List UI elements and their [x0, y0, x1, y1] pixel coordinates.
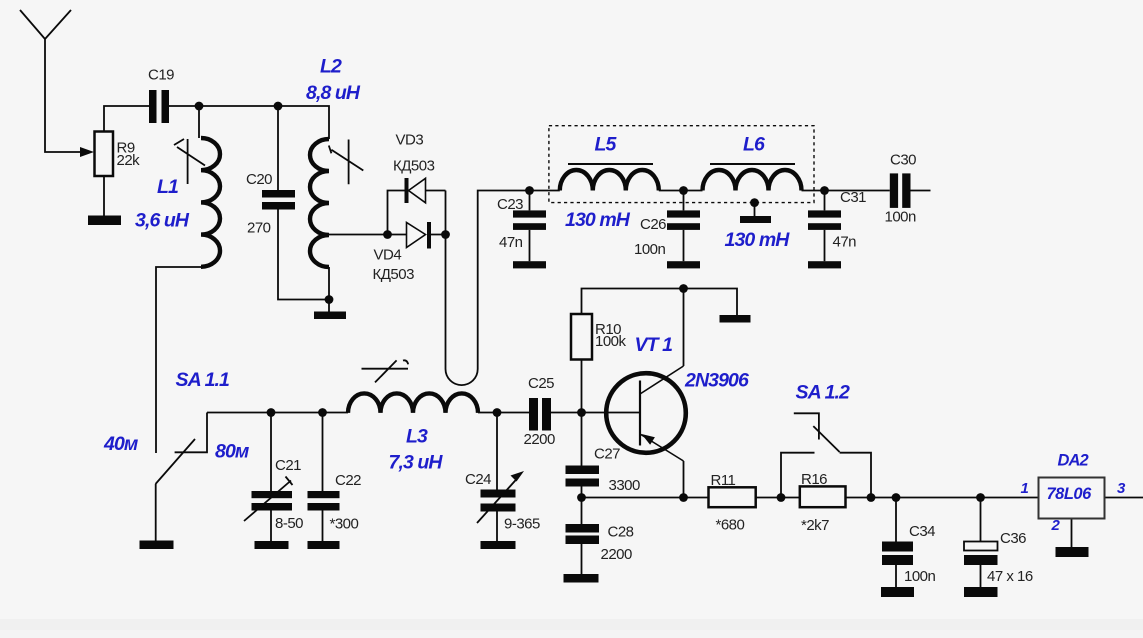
svg-text:47n: 47n [833, 234, 857, 251]
svg-text:C19: C19 [148, 67, 174, 84]
svg-text:C30: C30 [890, 152, 916, 169]
svg-text:9-365: 9-365 [504, 516, 540, 533]
svg-text:270: 270 [247, 220, 271, 237]
svg-text:2200: 2200 [524, 431, 556, 448]
svg-text:80м: 80м [215, 441, 250, 463]
svg-text:3,6 uH: 3,6 uH [135, 210, 190, 232]
svg-text:C27: C27 [594, 446, 620, 463]
svg-text:VT 1: VT 1 [635, 334, 673, 356]
svg-text:VD3: VD3 [396, 132, 424, 149]
svg-text:C23: C23 [497, 196, 523, 213]
svg-text:C31: C31 [840, 189, 866, 206]
svg-text:2N3906: 2N3906 [684, 370, 749, 392]
svg-text:3300: 3300 [609, 477, 641, 494]
svg-text:C21: C21 [275, 457, 301, 474]
svg-text:КД503: КД503 [373, 266, 415, 283]
svg-text:C34: C34 [909, 523, 935, 540]
svg-text:100n: 100n [885, 209, 917, 226]
svg-text:VD4: VD4 [374, 247, 402, 264]
svg-text:47 x 16: 47 x 16 [987, 568, 1033, 585]
svg-text:8-50: 8-50 [275, 515, 303, 532]
svg-text:22k: 22k [117, 152, 141, 169]
svg-text:КД503: КД503 [393, 158, 435, 175]
svg-text:C22: C22 [335, 472, 361, 489]
svg-text:R11: R11 [711, 472, 736, 489]
svg-text:40м: 40м [103, 433, 139, 455]
svg-text:R16: R16 [801, 471, 827, 488]
svg-text:130 mH: 130 mH [725, 229, 791, 251]
svg-text:1: 1 [1021, 480, 1029, 497]
svg-text:100n: 100n [634, 241, 666, 258]
svg-text:C28: C28 [608, 524, 634, 541]
svg-text:L3: L3 [406, 426, 428, 448]
svg-text:SA 1.2: SA 1.2 [796, 382, 851, 404]
svg-text:DA2: DA2 [1058, 452, 1089, 470]
svg-text:C20: C20 [246, 171, 272, 188]
svg-text:47n: 47n [499, 234, 523, 251]
svg-text:78L06: 78L06 [1047, 485, 1093, 503]
svg-text:C26: C26 [640, 216, 666, 233]
svg-text:L6: L6 [743, 134, 765, 156]
svg-text:SA 1.1: SA 1.1 [176, 369, 230, 391]
svg-text:8,8 uH: 8,8 uH [306, 82, 361, 104]
svg-text:130 mH: 130 mH [565, 209, 631, 231]
svg-text:L5: L5 [595, 134, 618, 156]
svg-text:L1: L1 [157, 176, 178, 198]
svg-text:100k: 100k [595, 333, 627, 350]
svg-text:*680: *680 [716, 517, 745, 534]
svg-text:2200: 2200 [601, 546, 633, 563]
svg-text:C36: C36 [1000, 530, 1026, 547]
svg-text:*2k7: *2k7 [801, 517, 829, 534]
svg-text:*300: *300 [330, 516, 359, 533]
svg-text:C24: C24 [465, 471, 491, 488]
svg-text:C25: C25 [528, 375, 554, 392]
svg-text:7,3 uH: 7,3 uH [389, 452, 444, 474]
svg-text:100n: 100n [904, 568, 936, 585]
svg-text:L2: L2 [320, 56, 342, 78]
